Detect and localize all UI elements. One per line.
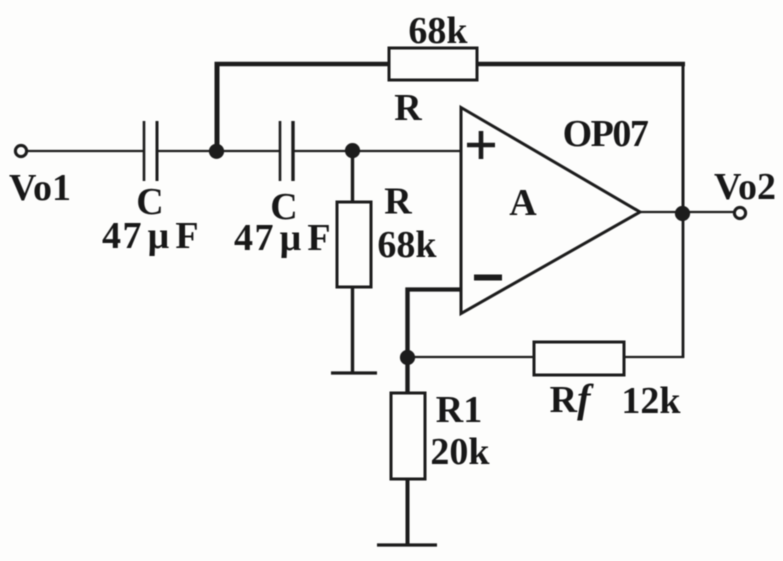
wire capacitor C2 to node N2 to op-amp + input (293, 150, 461, 152)
wire resistor Rf to node N3 (407, 356, 534, 358)
resistor R 68k (top feedback) (389, 48, 477, 80)
svg-text:Vo2: Vo2 (714, 166, 776, 208)
svg-text:68k: 68k (408, 10, 468, 52)
wire node N3 down to resistor R1 (405, 357, 409, 394)
wire op-amp - input to node N3 (406, 288, 462, 359)
svg-text:47 μ F: 47 μ F (234, 217, 332, 259)
wire output node down to feedback resistor Rf (682, 213, 685, 358)
capacitor C2 (right, 47uF) (280, 121, 293, 181)
op-amp + input marking (467, 131, 495, 159)
svg-text:Vo1: Vo1 (9, 167, 71, 209)
svg-text:12k: 12k (621, 380, 681, 422)
wire resistor R1 to ground (406, 479, 410, 545)
wire right rail to resistor Rf (624, 356, 684, 358)
terminal Vo1 (15, 145, 26, 156)
wire op-amp output to terminal Vo2 (640, 211, 734, 213)
svg-text:47 μ F: 47 μ F (102, 215, 200, 257)
ground (below R1) (377, 543, 437, 546)
node N2 junction dot (345, 143, 360, 158)
node N1 junction dot (209, 144, 224, 159)
wire input Vo1 to capacitor C (left) (26, 150, 143, 152)
wire resistor R 68k to ground (351, 287, 354, 373)
ground (below R 68k) (331, 371, 377, 374)
svg-text:Rf: Rf (550, 376, 594, 421)
resistor R 68k (shunt to ground) (337, 202, 371, 287)
output node junction dot (675, 206, 690, 221)
svg-text:OP07: OP07 (563, 113, 649, 155)
svg-text:R: R (384, 181, 412, 223)
terminal Vo2 (734, 207, 745, 218)
op-amp A (OP07) triangle (461, 108, 640, 314)
svg-text:R1: R1 (436, 389, 482, 431)
svg-text:68k: 68k (377, 224, 437, 266)
wire right rail down to output node (682, 62, 685, 213)
resistor R1 20k (391, 393, 425, 479)
wire top rail right segment from resistor to right rail (477, 62, 685, 67)
op-amp - input marking (474, 275, 502, 281)
wire capacitor C to node N1 to capacitor C2 (157, 150, 280, 152)
wire node N1 up to top feedback rail (215, 62, 220, 153)
capacitor C (left, 47uF) (144, 121, 157, 181)
svg-text:20k: 20k (430, 431, 490, 473)
node N3 junction dot (400, 350, 415, 365)
wire top rail left segment to resistor R 68k (215, 62, 391, 67)
svg-text:R: R (394, 87, 422, 129)
resistor Rf 12k (534, 342, 624, 375)
svg-text:A: A (509, 182, 537, 224)
wire node N2 down to resistor R 68k (shunt) (351, 151, 354, 203)
